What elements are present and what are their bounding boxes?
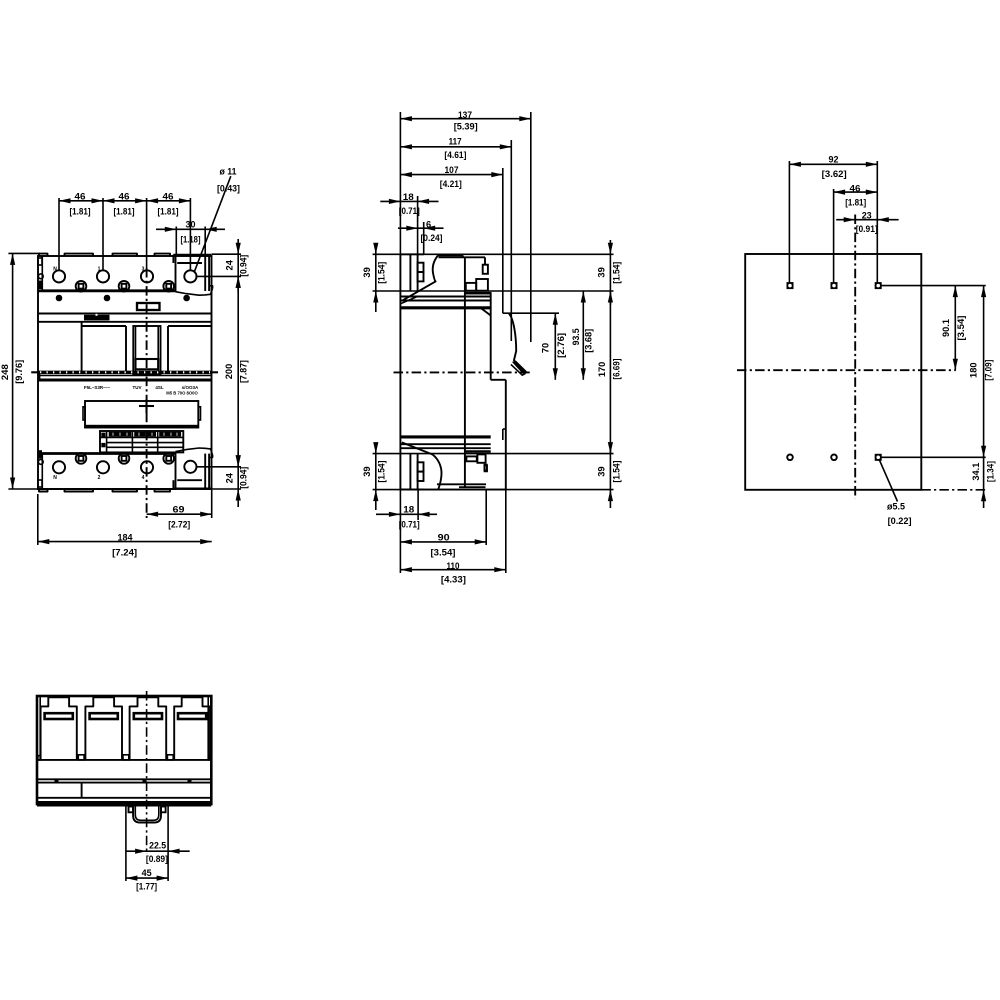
front view: bottom terminal shelf thick line [38,452,176,455]
dim 90 dimension line [400,541,486,543]
bottom view: DIN clip tub inner wall [135,807,159,821]
side view: slant bottom [402,442,433,454]
front view: left edge notch top [38,258,42,265]
bottom view: DIN clip sides [125,807,127,882]
dim 46 dimension line [834,191,878,193]
side view rear witness extension [399,490,401,573]
dim 18 top dimension line [380,200,438,202]
side view: escutcheon front arc [509,313,516,361]
svg-text:45: 45 [142,868,152,878]
front view: mid window divider right [167,326,169,372]
svg-text:[1.34]: [1.34] [985,461,995,482]
dim 180 dimension line [983,286,985,458]
front view: black label rectangle left [84,315,110,321]
front view: mid window top edges [82,325,126,327]
svg-text:107: 107 [445,165,459,175]
side view: terminal clamp squares bottom [418,462,424,471]
side view: bottom shelf witness line [373,453,614,455]
front view: left edge notch bottom [38,480,42,487]
svg-text:34.1: 34.1 [971,463,981,481]
svg-text:18: 18 [403,192,414,202]
drilling plan: panel outline dash-dot [745,254,921,490]
side view: shelf lines top [400,296,490,298]
front view: terminal holes top row [53,270,65,282]
svg-text:2: 2 [98,475,101,481]
dim 70 dimension line [554,313,556,380]
svg-text:30: 30 [186,219,196,229]
side view: chamfer top [481,308,490,315]
svg-text:[7.87]: [7.87] [239,360,249,383]
side view: thick line bottom [400,435,490,438]
dim 6 witness line [423,222,425,254]
drilling plan: top hole row witness line [881,285,986,287]
front view: screw terminals bottom row (circle + square) [76,453,87,464]
front view: mid split thick dotted line [38,371,212,374]
svg-text:110: 110 [447,561,460,571]
front view: top terminal shelf thick line [38,289,176,292]
svg-text:70: 70 [541,343,551,353]
dim 170 dimension line [609,291,611,454]
side view: step line below escutcheon top [503,312,559,314]
leader diameter 11 hole [194,176,231,272]
dim 39 right bottom dimension line [609,445,611,508]
front view: screw terminals top row (circle + square) [76,281,87,292]
svg-text:92: 92 [829,155,839,165]
dim 90.1 dimension line [954,286,956,371]
svg-text:[0.71]: [0.71] [399,206,420,216]
front view: center cross mark [139,405,154,407]
bottom view: line under windows [37,759,211,761]
side view: bottom edge [400,489,505,491]
front view: pole 4 extension block top [173,254,211,256]
front view: bottom edge tabs [39,489,48,492]
dim 90 witness line [485,490,487,545]
front view: mid window divider center-left [125,326,127,372]
dim 24 top witness lines [212,253,242,255]
dim 34.1 dimension line [983,457,985,508]
side view: horizontal centerline dash-dot [394,371,532,373]
side view: dome curve bottom [432,454,441,489]
svg-text:39: 39 [362,267,372,277]
front view: approval label table [100,431,183,452]
svg-text:[2.76]: [2.76] [556,333,566,358]
dim 45 dimension line [126,877,168,879]
front view: mid line thin [38,374,212,376]
side view: thick line top [400,306,490,309]
svg-text:[3.62]: [3.62] [822,169,847,179]
side view: shelf diagonal top [400,297,417,304]
front view: mid thick line [38,378,212,381]
front view: approval table icons [101,433,105,438]
dim 93.5 dimension line [582,291,584,380]
front view: extension block top wavy bottom edge [176,288,213,295]
svg-text:46: 46 [850,183,861,193]
svg-text:[1.81]: [1.81] [70,206,91,216]
front view: left side black clip top [38,281,42,290]
drilling plan: bottom hole row witness line [881,456,986,458]
svg-text:s/OO3A: s/OO3A [182,385,199,390]
dim 23 dimension line [836,219,898,221]
bottom view: flange black ticks [55,779,59,782]
front view: extension block bottom right step [209,455,213,457]
svg-text:[0.94]: [0.94] [239,255,249,277]
front view: rating plate side tabs [83,407,85,420]
drilling plan: horizontal centerline dash-dot [737,369,956,371]
svg-text:[1.81]: [1.81] [114,206,135,216]
bottom view: separator feet [78,755,84,760]
svg-text:3: 3 [142,267,145,273]
dim 6 dimension line [398,227,444,229]
svg-text:TUV: TUV [133,385,142,390]
svg-text:90: 90 [438,533,450,543]
dim 24 bottom witness lines [196,466,241,468]
dim 92 witness lines [788,161,790,282]
side view: bottom front step detail [503,428,506,430]
dim 248 witness top [8,252,40,254]
dim 24 bottom dimension line [237,452,239,507]
side view: front mid edge [490,292,492,380]
side view: mechanism dome bottom [437,483,486,485]
front view: breaker outer body [38,256,212,489]
dim 92 dimension line [789,163,877,165]
front view: extension block top right step [209,286,213,289]
front view: black dots below top shelf [56,295,63,302]
svg-text:[0.94]: [0.94] [239,467,249,489]
svg-text:69: 69 [173,505,185,515]
drilling plan: bottom mounting holes [787,455,793,461]
bottom view: lower band divider [81,783,83,798]
front view: handle cutout inner [135,326,137,374]
front view: left edge dark block at split [38,373,41,380]
svg-text:4: 4 [142,475,145,481]
bottom view: bottom black bar [37,801,211,807]
dim 46x3 dimension line [59,200,190,202]
front view: left side black clip bottom [38,450,42,459]
bottom view: flange lines [37,778,211,780]
svg-text:[1.54]: [1.54] [376,461,386,483]
svg-text:24: 24 [224,259,234,270]
svg-text:F5L–S3R—–: F5L–S3R—– [84,385,111,390]
front view: horizontal line under top section [38,313,212,315]
leader diameter 5.5 hole [880,460,898,501]
dim 24 top dimension line [237,239,239,292]
svg-text:22.5: 22.5 [149,840,166,850]
bottom view: terminal slots [45,713,73,719]
svg-text:[3.54]: [3.54] [431,547,456,557]
svg-text:ø 11: ø 11 [220,167,237,177]
side view: rear terminal block bottom [400,489,424,491]
front view: terminal holes bottom row [53,461,65,473]
svg-text:[1.81]: [1.81] [158,206,179,216]
front view: terminal hole pole 4 top [184,270,196,282]
dim 117 witness line [510,140,512,341]
dim 117 dimension line [400,146,511,148]
front view: small rectangle window upper center [137,303,160,310]
side view: mechanism dome top [438,254,463,256]
svg-text:M5 B 70O 8O0O: M5 B 70O 8O0O [166,391,198,396]
dim 248 witness bottom [8,488,40,490]
front view: center line vertical dash-dot [146,268,148,518]
dim 39 left bottom dimension line [375,445,377,510]
dim 30 dimension line [156,228,225,230]
svg-text:90.1: 90.1 [941,319,951,337]
front view: mid window divider left [81,322,83,372]
dim 46 witness line [833,189,835,282]
svg-text:[9.76]: [9.76] [14,360,24,384]
front view: horizontal line above windows [38,321,212,323]
front view: terminal hole pole 4 bottom [184,461,196,473]
side view: bottom witness line [373,489,614,491]
svg-text:4SL: 4SL [155,385,164,390]
side view: rear edge [399,254,401,489]
svg-text:[6.69]: [6.69] [612,359,622,380]
svg-text:[1.54]: [1.54] [376,262,386,284]
front view: pole 4 extension block bottom [173,487,211,489]
svg-text:[1.81]: [1.81] [845,197,866,207]
svg-text:6: 6 [426,220,431,230]
dim 137 witness lines [399,112,401,254]
drilling plan: vertical centerline dash-dot [854,215,856,499]
svg-text:23: 23 [862,211,872,221]
side view: center vertical line [464,257,466,486]
svg-text:[4.33]: [4.33] [441,574,466,584]
svg-text:46: 46 [119,192,130,202]
bottom view: DIN clip tabs [129,807,134,813]
drilling plan: bottom edge witness extension [921,489,985,491]
side view: bottom front outline [491,379,506,381]
bottom view: outer body [37,696,211,804]
svg-text:[0.22]: [0.22] [888,516,912,526]
svg-text:24: 24 [224,472,234,483]
dim 69 dimension line [147,513,212,515]
svg-text:117: 117 [449,137,462,147]
svg-text:[1.54]: [1.54] [612,461,622,483]
svg-text:1: 1 [98,267,101,273]
bottom view: centerline dash-dot [146,691,148,854]
dim 18 bottom dimension line [376,513,437,515]
front view: rating plate black bottom bar [86,425,198,428]
svg-text:39: 39 [362,466,372,476]
svg-text:[3.68]: [3.68] [583,329,593,353]
side view: terminal clamp squares top [418,263,424,272]
dim 46x3 witness lines [58,198,60,271]
front view: terminal strip inner left line top [41,256,43,291]
side view: shelf witness line [373,290,614,292]
dim 200 dimension line [237,276,239,466]
front view: left side small circle bottom [38,460,43,465]
svg-text:93.5: 93.5 [571,328,581,345]
front view: approval table black header cells [109,432,132,437]
side view: top witness line 39 [373,253,614,255]
drilling plan: top mounting holes [787,283,792,288]
svg-text:180: 180 [968,362,978,378]
svg-text:[7.24]: [7.24] [112,548,137,558]
svg-text:200: 200 [224,364,234,380]
side view: shelf lines bottom [400,447,490,449]
svg-text:[1.54]: [1.54] [612,262,622,284]
side view: rear terminal block top [400,253,424,255]
svg-text:184: 184 [118,532,134,542]
front view: left side small circle top [38,274,43,279]
front view: top edge tabs [39,254,48,256]
svg-text:[5.39]: [5.39] [454,122,478,132]
front view: extension block bottom wavy top edge [176,448,213,455]
dim 22.5 dimension line [126,850,190,852]
dim 69 witness line right [211,490,213,518]
svg-text:[0.24]: [0.24] [421,233,443,243]
dim 107 witness line [502,168,504,313]
svg-text:[0.91]: [0.91] [856,224,878,234]
front view: rating plate [85,401,198,428]
svg-text:N: N [53,267,57,273]
svg-text:[1.18]: [1.18] [181,234,201,244]
svg-text:18: 18 [403,504,414,514]
side view: handle toggle black [512,360,527,374]
bottom view: pole windows [41,697,77,760]
dim 248 dimension line [12,253,14,489]
front view: handle cutout outer [133,326,160,374]
svg-text:[0.89]: [0.89] [146,854,168,864]
dim 107 dimension line [400,174,502,176]
svg-text:[1.77]: [1.77] [136,882,157,892]
side view: dome curve top [402,255,438,301]
svg-text:[3.54]: [3.54] [956,316,966,341]
dim 184 witness line left [37,494,39,545]
svg-text:248: 248 [0,364,10,380]
dim 39 right top dimension line [609,240,611,305]
svg-text:39: 39 [597,466,607,476]
svg-text:[7.09]: [7.09] [983,360,993,381]
front view: terminal strip inner left line bottom [41,454,43,490]
dim 110 witness line [505,490,507,573]
svg-text:[4.21]: [4.21] [440,179,462,189]
svg-text:[2.72]: [2.72] [168,520,190,530]
svg-text:[4.61]: [4.61] [444,150,466,160]
bottom view: inner side lines [39,696,41,760]
dim 137 dimension line [400,118,530,120]
front view: handle toggle [136,359,159,369]
svg-text:170: 170 [597,362,607,378]
svg-text:46: 46 [163,192,174,202]
dim 184 dimension line [38,541,212,543]
bottom view: DIN clip tub [133,807,161,823]
dim 39 left top dimension line [375,246,377,312]
svg-text:[0.71]: [0.71] [399,520,420,530]
svg-text:39: 39 [597,267,607,277]
svg-text:137: 137 [458,110,472,120]
dim 18 bottom witness line [417,490,419,520]
svg-text:46: 46 [75,192,86,202]
dim 110 dimension line [400,569,505,571]
dim 30 witness lines [175,227,177,255]
dim 18 top witness line [417,196,419,254]
svg-text:[0.43]: [0.43] [217,183,240,193]
front view: mid split line stubs [31,371,38,373]
svg-text:ø5.5: ø5.5 [887,502,905,512]
svg-text:N: N [53,475,57,481]
front view: bottom edge line of terminal blocks [38,488,176,490]
